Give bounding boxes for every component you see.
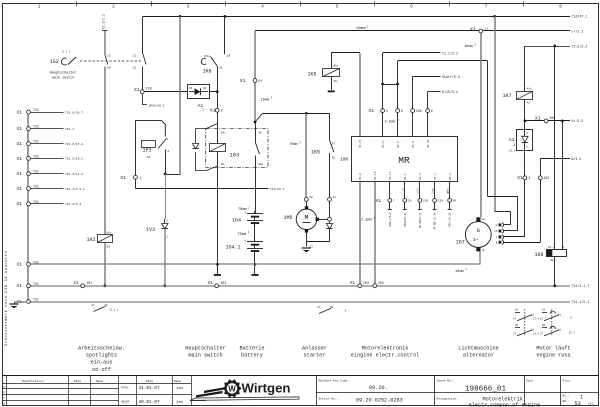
svg-text:16mm: 16mm [261,98,270,102]
svg-text:2.5mm: 2.5mm [385,121,396,125]
svg-text:K1-T3: K1-T3 [374,171,377,179]
svg-text:a: a [3,386,5,389]
svg-text:13: 13 [107,55,111,58]
svg-text:87: 87 [332,143,336,146]
svg-text:229: 229 [423,200,429,203]
svg-text:205: 205 [378,281,384,285]
svg-text:103: 103 [230,153,240,159]
svg-text:1F3: 1F3 [143,147,152,153]
svg-text:106: 106 [340,156,349,162]
svg-text:1K8: 1K8 [535,252,544,258]
svg-text:0+/3.2: 0+/3.2 [572,119,584,123]
svg-text:1V3: 1V3 [146,227,155,233]
svg-text:Serial-No.:: Serial-No.: [319,396,339,400]
svg-text:1K7: 1K7 [503,93,512,99]
svg-text:T31: T31 [33,154,39,158]
svg-text:6A: 6A [147,156,151,159]
svg-text:T1.1/2.1: T1.1/2.1 [442,51,458,55]
svg-text:Lichtmaschine: Lichtmaschine [458,345,498,351]
svg-text:61: 61 [333,196,337,199]
svg-text:A2-: A2- [527,101,532,104]
svg-text:1+T1: 1+T1 [417,187,420,193]
svg-text:206: 206 [416,109,422,113]
svg-text:1G4.1: 1G4.1 [226,245,241,251]
svg-text:0 1 2: 0 1 2 [63,51,71,54]
svg-text:14: 14 [107,67,111,70]
svg-text:1: 1 [140,177,142,181]
svg-text:(5.6: (5.6 [533,332,540,336]
svg-text:X1: X1 [535,115,541,121]
svg-text:X1: X1 [17,283,23,289]
svg-text:Hauptschalter: Hauptschalter [50,71,76,76]
svg-text:spotlights: spotlights [86,353,117,359]
svg-text:88a: 88a [258,163,263,166]
svg-text:87: 87 [92,304,96,307]
svg-text:W: W [228,384,236,393]
svg-text:87: 87 [317,306,321,309]
svg-text:X1: X1 [17,141,23,147]
svg-text:T31: T31 [33,200,39,204]
svg-text:18: 18 [515,309,519,312]
svg-text:+: + [244,239,246,243]
svg-text:on-off: on-off [92,367,111,373]
svg-text:starter: starter [304,353,326,359]
svg-text:.7: .7 [200,108,204,112]
svg-text:16: 16 [189,87,193,90]
svg-text:(5.7: (5.7 [569,331,576,335]
svg-text:Jax: Jax [176,387,184,391]
svg-text:ein-aus: ein-aus [91,360,113,366]
svg-text:30: 30 [203,87,207,90]
svg-text:21: 21 [558,329,562,332]
svg-text:T31: T31 [33,170,39,174]
svg-text:30: 30 [105,304,109,307]
svg-text:T31: T31 [33,282,39,286]
svg-text:brw.: brw. [122,386,130,391]
svg-text:.5: .5 [343,310,347,313]
svg-text:T31: T31 [33,108,39,112]
svg-text:T16/X7.1: T16/X7.1 [572,15,588,19]
svg-text:86-: 86- [221,163,226,166]
svg-text:K1-T2: K1-T2 [359,139,362,147]
svg-text:Modification: Modification [22,379,44,383]
svg-text:Machine Key Code:: Machine Key Code: [319,379,350,383]
svg-text:204: 204 [363,281,369,285]
svg-text:K1-1: K1-1 [404,173,407,180]
svg-text:15: 15 [494,230,498,233]
svg-text:30: 30 [258,131,262,134]
svg-text:Hauptschalter: Hauptschalter [185,345,225,351]
svg-text:Start/5.4: Start/5.4 [442,75,460,79]
svg-text:70mm: 70mm [238,233,247,237]
svg-text:K1-6: K1-6 [397,141,400,148]
svg-text:Plan: Plan [563,379,570,383]
svg-text:30: 30 [332,157,336,160]
svg-text:85+: 85+ [221,131,226,134]
svg-text:.3: .3 [511,143,515,147]
svg-text:X1: X1 [17,262,23,268]
svg-text:7: 7 [393,200,395,203]
svg-text:6: 6 [401,109,403,113]
svg-text:21: 21 [133,55,137,58]
svg-text:17: 17 [540,318,544,321]
svg-text:X1: X1 [517,175,523,181]
svg-text:T31/2.1.7: T31/2.1.7 [572,284,590,288]
svg-text:B-: B- [483,249,487,252]
svg-text:c: c [3,397,5,400]
svg-text:main switch: main switch [188,353,222,359]
svg-text:1+w1: 1+w1 [431,187,434,193]
svg-text:53: 53 [575,401,581,407]
svg-text:1P08/26.1: 1P08/26.1 [149,103,165,107]
svg-text:battery: battery [241,353,263,359]
svg-text:86+: 86+ [107,231,112,234]
svg-text:K1-10: K1-10 [427,139,430,147]
svg-text:Motorelektronik: Motorelektronik [362,345,409,351]
svg-text:T31.2/5.3: T31.2/5.3 [65,202,81,206]
svg-text:engine runs: engine runs [536,353,570,359]
svg-text:11: 11 [531,314,535,317]
svg-text:201: 201 [87,281,93,285]
svg-text:2: 2 [221,110,223,114]
svg-text:Anlasser: Anlasser [302,345,327,351]
svg-text:B+: B+ [483,218,487,221]
svg-text:86+: 86+ [334,64,339,67]
svg-text:K1-T3: K1-T3 [389,171,392,179]
svg-text:28: 28 [408,200,412,203]
svg-text:K1-8: K1-8 [412,141,415,148]
svg-text:X1: X1 [210,108,216,114]
svg-text:K1-9: K1-9 [382,141,385,148]
svg-text:202: 202 [221,281,227,285]
svg-text:X1: X1 [134,87,140,93]
svg-text:6: 6 [431,109,433,113]
svg-text:A1+: A1+ [527,88,532,91]
svg-text:1S2: 1S2 [50,59,59,65]
svg-text:17: 17 [513,318,517,321]
svg-text:electr.compon.of engine: electr.compon.of engine [469,402,541,407]
svg-text:(5.4: (5.4 [533,317,540,321]
svg-text:X1: X1 [120,175,126,181]
svg-text:T31.4/17.3: T31.4/17.3 [65,172,83,176]
svg-text:16mm: 16mm [455,270,464,274]
svg-text:BH.:: BH.: [563,400,570,403]
svg-text:T31: T31 [33,125,39,129]
svg-text:1G7: 1G7 [456,240,465,246]
svg-text:MR: MR [398,155,410,166]
svg-text:Batterie: Batterie [240,345,265,351]
svg-text:T31.3/4.1.1: T31.3/4.1.1 [65,187,85,191]
svg-text:10mm: 10mm [356,27,366,31]
svg-text:L+/2.1: L+/2.1 [572,29,584,33]
svg-text:HF-GM.(5.3): HF-GM.(5.3) [433,212,437,230]
svg-text:86-: 86- [107,246,112,249]
svg-text:30: 30 [330,306,334,309]
svg-text:11: 11 [558,314,562,317]
svg-text:T2.1/2.2: T2.1/2.2 [101,14,105,29]
svg-text:(2.1.): (2.1.) [109,308,119,312]
svg-text:T2.5/2.3: T2.5/2.3 [572,44,588,48]
svg-text:Jax: Jax [176,401,184,405]
svg-text:Spot:: Spot: [526,380,535,383]
svg-text:16: 16 [227,55,231,58]
svg-text:T31: T31 [33,140,39,144]
svg-text:X1: X1 [17,126,23,132]
svg-text:4: 4 [386,109,388,113]
svg-text:T17/88.1: T17/88.1 [270,187,285,191]
svg-text:G: G [477,228,480,234]
svg-text:L+: L+ [485,27,489,31]
svg-text:X1: X1 [470,26,476,32]
svg-text:X1: X1 [17,109,23,115]
svg-text:+: + [244,211,246,215]
svg-text:09.20.: 09.20. [369,385,388,391]
svg-text:(Bl.: (Bl. [588,402,595,406]
svg-text:Schutzvermerk nach DIN 34 beac: Schutzvermerk nach DIN 34 beachten [4,251,9,346]
svg-text:T31.7: T31.7 [65,128,74,131]
svg-text:Motor läuft: Motor läuft [536,345,570,351]
svg-text:Name: Name [96,380,103,383]
svg-text:1: 1 [580,395,583,401]
svg-text:Name: Name [174,380,181,383]
svg-text:3~: 3~ [473,237,479,243]
svg-text:K1-2: K1-2 [449,173,452,180]
svg-text:main switch: main switch [52,75,74,80]
svg-text:Kl15/5.1: Kl15/5.1 [442,90,458,94]
svg-text:70mm: 70mm [289,143,298,147]
svg-text:85-: 85- [334,80,339,83]
svg-text:alternator: alternator [463,353,494,359]
svg-text:X1: X1 [17,171,23,177]
svg-text:11: 11 [219,67,223,70]
svg-text:X1: X1 [74,282,80,286]
svg-text:eingine electr.control: eingine electr.control [351,353,420,359]
svg-text:0+: 0+ [259,79,263,83]
svg-text:appr.: appr. [122,400,132,405]
svg-text:278: 278 [146,88,152,92]
svg-text:GM-L(5.3): GM-L(5.3) [448,212,452,226]
svg-text:(3.7: (3.7 [508,149,515,153]
svg-text:Arbeitsscheinw.: Arbeitsscheinw. [78,345,125,351]
svg-text:K1-3: K1-3 [419,173,422,180]
svg-text:30: 30 [309,196,313,199]
svg-text:283: 283 [544,176,550,180]
svg-text:M: M [305,215,309,222]
svg-text:16mm: 16mm [464,45,473,49]
svg-text:A2 -: A2 - [551,259,558,262]
svg-text:T31: T31 [33,298,39,302]
svg-text:1K5: 1K5 [308,72,317,78]
svg-text:X1: X1 [17,186,23,192]
svg-text:3: 3 [528,176,530,180]
svg-text:Ident-No.:: Ident-No.: [437,379,455,383]
svg-text:30: 30 [453,200,457,203]
svg-text:198666_01: 198666_01 [465,385,506,393]
svg-text:gelb: gelb [446,187,449,193]
svg-text:1K5: 1K5 [311,150,320,156]
svg-text:31.01.07: 31.01.07 [139,386,160,391]
svg-text:T31: T31 [33,260,39,264]
svg-text:X1: X1 [350,282,356,286]
svg-text:X1: X1 [208,282,214,286]
svg-text:Date: Date [146,380,153,383]
svg-text:28: 28 [515,324,519,327]
svg-text:230: 230 [438,200,444,203]
svg-text:1PA+: 1PA+ [204,55,211,58]
svg-text:2.5mm: 2.5mm [361,219,372,223]
svg-text:18: 18 [542,309,546,312]
svg-text:K1-4: K1-4 [434,173,437,180]
svg-text:d: d [3,401,5,405]
svg-text:Wirtgen: Wirtgen [242,381,291,396]
svg-text:Designation:: Designation: [437,396,459,400]
svg-text:1K8: 1K8 [203,68,212,74]
svg-text:T31.8/28.7: T31.8/28.7 [65,110,83,114]
svg-text:22: 22 [133,67,137,70]
svg-text:T31.1/5.1: T31.1/5.1 [572,300,590,304]
svg-text:X1: X1 [375,198,381,204]
svg-text:30.01.07: 30.01.07 [139,400,160,405]
svg-text:W/3.5: W/3.5 [572,157,582,161]
svg-text:1M5: 1M5 [284,215,293,221]
svg-text:.3: .3 [569,317,573,320]
svg-text:T31.6/17.4: T31.6/17.4 [65,142,83,146]
svg-text:T31: T31 [33,185,39,189]
svg-text:09.20.0252-0283: 09.20.0252-0283 [356,398,403,404]
svg-text:27: 27 [540,333,544,336]
svg-text:DSG+(/5.3: DSG+(/5.3 [388,212,392,226]
svg-text:GM(H/5.3): GM(H/5.3) [403,212,407,226]
svg-text:28: 28 [542,324,546,327]
svg-text:K1-8: K1-8 [359,173,362,180]
svg-text:Bl.:: Bl.: [563,393,570,397]
svg-text:1K2: 1K2 [86,237,95,243]
svg-text:1G4: 1G4 [232,218,241,224]
svg-text:T31.5/16.1: T31.5/16.1 [65,157,83,161]
svg-text:X1: X1 [17,201,23,207]
svg-text:21: 21 [531,329,535,332]
svg-text:27: 27 [513,333,517,336]
svg-text:X1: X1 [368,108,374,114]
svg-text:b: b [3,390,5,394]
svg-text:X1: X1 [17,156,23,162]
svg-text:X1: X1 [240,78,246,84]
svg-text:Date: Date [74,380,81,383]
svg-text:A1 +: A1 + [548,246,555,249]
svg-text:HF-GM(3.3): HF-GM(3.3) [418,212,422,228]
